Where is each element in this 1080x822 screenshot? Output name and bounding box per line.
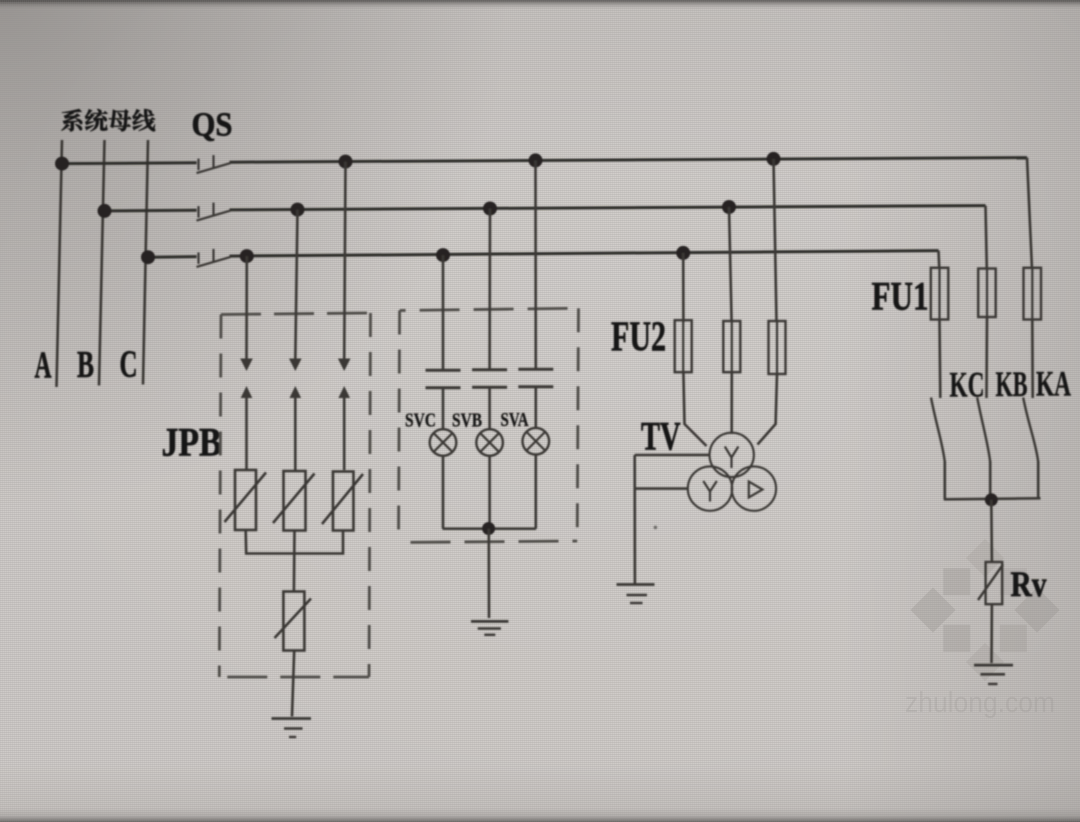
JPB column A wire and spark gap — [338, 162, 351, 470]
voltage transformer TV (three windings) — [688, 433, 776, 511]
svg-text:SVC: SVC — [405, 410, 436, 432]
fuse FU1 phase A — [1024, 158, 1042, 398]
SVA capacitor divider and lamp — [518, 160, 553, 528]
svg-text:SVA: SVA — [501, 409, 529, 431]
switch KB — [977, 398, 990, 500]
switch KA — [1023, 398, 1038, 500]
svg-text:QS: QS — [192, 107, 233, 144]
node bus1-A — [55, 157, 69, 171]
arrester JPB neutral (rect with slash) — [275, 592, 312, 651]
wire TV secondary tap lower — [635, 487, 688, 490]
arrester JPB phase B (rect with slash) — [273, 471, 315, 531]
K common bar — [944, 498, 1041, 499]
wire SV common to ground — [487, 529, 490, 618]
disconnect switch QS pole 1 — [197, 155, 231, 173]
wire Rv to ground — [990, 604, 993, 663]
varistor Rv (rect with slash) — [978, 562, 1003, 604]
dust speck — [654, 526, 658, 530]
wire JPB center down to neutral arrester — [293, 531, 296, 592]
node K common — [985, 493, 998, 506]
SVC capacitor divider and lamp — [426, 255, 461, 529]
disconnect switch QS pole 3 — [197, 249, 231, 267]
svg-text:B: B — [77, 344, 94, 386]
svg-text:KC: KC — [950, 365, 985, 405]
bus label 系统母线 (system bus) — [61, 109, 155, 131]
svg-text:TV: TV — [641, 414, 681, 459]
JPB column B wire and spark gap — [289, 210, 302, 470]
fuse FU1 phase C — [931, 251, 949, 398]
bus line 2 phase B left segment — [105, 209, 197, 213]
phase bus vertical A — [57, 140, 63, 387]
bus line 3 phase C left segment — [148, 255, 197, 259]
node bus1-FU2c — [767, 152, 781, 166]
ground symbol SV — [471, 621, 508, 634]
SVB capacitor divider and lamp — [472, 209, 507, 529]
wire neutral arrester to ground — [292, 651, 294, 717]
svg-text:FU1: FU1 — [872, 274, 929, 319]
node bus2-FU2b — [722, 200, 736, 214]
switch KC — [931, 398, 945, 500]
phase bus vertical B — [99, 140, 105, 386]
node bus1-SVA — [529, 153, 543, 167]
wire FU2-C to TV primary — [683, 372, 706, 446]
SV common bar — [443, 527, 536, 530]
svg-text:JPB: JPB — [162, 420, 222, 465]
node bus2-JPB — [291, 203, 305, 217]
svg-text:KA: KA — [1036, 364, 1071, 404]
node bus3-JPB — [240, 249, 254, 263]
svg-text:Rv: Rv — [1011, 564, 1047, 604]
ground symbol TV — [617, 585, 655, 604]
watermark pinwheel logo — [910, 539, 1059, 681]
bus line 2 phase B right segment — [230, 206, 986, 210]
JPB column C wire and spark gap — [240, 256, 253, 470]
node bus2-B — [98, 204, 112, 218]
wire K common to Rv — [990, 500, 993, 562]
node bus1-JPB — [339, 155, 353, 169]
node SV common — [482, 522, 495, 535]
bus line 1 phase A right segment — [230, 158, 1028, 163]
svg-text:FU2: FU2 — [611, 315, 666, 361]
fuse FU2 phase A — [769, 159, 786, 374]
SV dashed enclosure — [399, 308, 579, 542]
wire TV secondary tap upper — [635, 454, 711, 457]
node bus3-FU2a — [676, 246, 690, 260]
node bus2-SVB — [483, 202, 497, 216]
node bus3-C — [141, 250, 155, 264]
fuse FU2 phase C — [675, 253, 692, 372]
bus line 3 phase C right segment — [230, 251, 939, 257]
fuse FU2 phase B — [723, 207, 740, 372]
JPB dashed enclosure — [219, 313, 370, 677]
svg-text:SVB: SVB — [452, 410, 482, 432]
arrester JPB phase A (rect with slash) — [322, 472, 363, 531]
svg-text:A: A — [35, 345, 52, 387]
bus line 1 phase A left segment — [62, 161, 197, 165]
svg-text:C: C — [120, 344, 138, 386]
wire TV neutral down — [633, 455, 636, 585]
svg-text:zhulong.com: zhulong.com — [905, 687, 1055, 719]
disconnect switch QS pole 2 — [197, 203, 231, 221]
JPB common connector bar — [246, 530, 343, 554]
node bus3-SVC — [436, 248, 450, 262]
fuse FU1 phase B — [978, 206, 996, 398]
phase bus vertical C — [143, 140, 148, 385]
wire FU2-B to TV primary — [730, 372, 733, 434]
arrester JPB phase C (rect with slash) — [225, 470, 267, 530]
wire FU2-A to TV primary — [758, 374, 778, 445]
ground symbol Rv — [974, 665, 1013, 684]
ground symbol JPB — [272, 719, 312, 738]
